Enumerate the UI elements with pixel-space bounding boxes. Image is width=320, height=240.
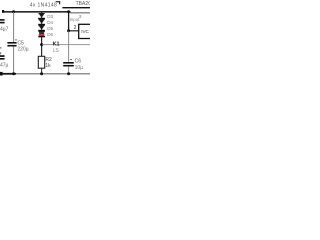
wire right vertical branch gray [68,32,70,74]
node junction top-right [67,10,70,13]
op-amp IC1 box (cropped at right) [79,24,92,38]
wire diode chain vertical [41,12,43,56]
svg-text:D4: D4 [47,20,53,25]
node diode bottom junction [40,43,43,46]
node bottom junction middle [40,72,43,75]
svg-text:1k: 1k [45,63,51,69]
node pin-2 junction [67,29,70,32]
capacitor C5 [7,42,16,44]
svg-text:Input: Input [70,17,81,22]
resistor R2 [38,56,44,68]
wire IC supply line [62,7,90,8]
wire resistor bottom [41,68,43,73]
svg-text:R2: R2 [45,57,52,63]
svg-text:4µ7: 4µ7 [0,26,9,32]
diode D4 [38,19,45,23]
wire top supply rail [2,11,71,13]
wire bottom rail thin [16,73,90,74]
diode D6 (red body) [38,31,45,32]
capacitor C1 (left edge, cropped) [0,19,5,21]
wire left edge stub marks [0,47,1,49]
svg-text:D3: D3 [47,14,53,19]
node bottom junction right [67,72,70,75]
node bottom rail start blob [0,72,3,76]
wire output horizontal gray [43,44,91,45]
wire bottom rail thick left [0,73,16,75]
node junction top-left [12,10,15,13]
wire IC supply corner stub [56,2,60,5]
svg-text:C6: C6 [75,59,82,65]
svg-text:IVC: IVC [81,29,89,34]
polarity plus mark [15,39,17,40]
svg-text:10µ: 10µ [75,65,84,71]
wire left vertical branch [13,12,15,74]
svg-text:2: 2 [74,25,77,31]
capacitor C2 (left edge lower, cropped) [0,55,5,57]
svg-text:LS: LS [53,48,60,54]
svg-text:TBA2C: TBA2C [76,1,90,7]
svg-text:D5: D5 [47,26,53,31]
capacitor C6 [63,62,74,64]
wire right vertical branch dark [68,12,70,31]
svg-text:220µ: 220µ [17,47,28,53]
svg-text:D6: D6 [47,32,53,37]
node rail start stub [2,10,4,13]
diode D5 [38,25,45,29]
polarity plus mark [70,59,72,60]
node bottom junction left [12,72,15,75]
svg-text:47µ: 47µ [0,62,9,68]
diode D3 [38,13,45,17]
wire top rail right thin continuation [70,12,90,13]
svg-text:4x 1N4148: 4x 1N4148 [30,3,57,9]
svg-text:K1: K1 [53,41,60,47]
wire pin 2 horizontal [69,30,78,31]
svg-text:C5: C5 [17,40,24,46]
